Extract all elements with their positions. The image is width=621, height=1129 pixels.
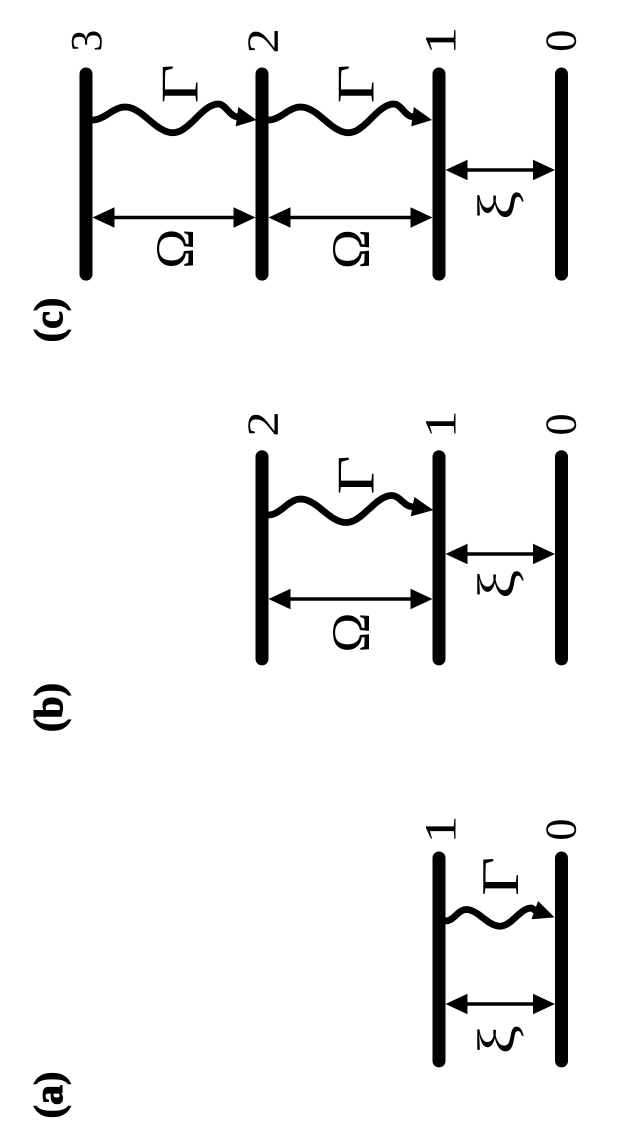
svg-text:Ω: Ω: [145, 229, 205, 269]
svg-text:Ω: Ω: [321, 612, 381, 652]
svg-text:1: 1: [416, 815, 465, 843]
decay arrow Gamma 2-1 (panel c): [269, 104, 433, 133]
level 0 (panel b): [555, 457, 568, 659]
svg-text:ξ: ξ: [467, 1025, 526, 1054]
svg-text:2: 2: [240, 411, 288, 436]
Rabi arrow Omega 3-2 (panel c): [93, 207, 256, 227]
coupling arrow xi (panel c): [446, 160, 556, 180]
svg-text:ξ: ξ: [467, 570, 526, 599]
svg-text:(b): (b): [26, 683, 71, 732]
decay arrow Gamma 3-2 (panel c): [93, 104, 257, 133]
level 1 (panel a): [433, 858, 446, 1061]
svg-text:ξ: ξ: [467, 191, 526, 220]
coupling arrow xi (panel a): [446, 994, 556, 1014]
level 2 (panel b): [256, 457, 269, 659]
svg-text:0: 0: [537, 30, 586, 52]
decay arrow Gamma 1-0 (panel a): [446, 901, 555, 926]
level 1 (panel b): [433, 457, 446, 659]
svg-text:0: 0: [537, 819, 586, 841]
level 2 (panel c): [256, 74, 269, 274]
level 0 (panel a): [555, 858, 568, 1061]
svg-text:Γ: Γ: [327, 455, 385, 494]
decay arrow Gamma 2-1 (panel b): [269, 496, 434, 523]
svg-text:(a): (a): [26, 1072, 71, 1119]
svg-text:Γ: Γ: [327, 64, 385, 103]
svg-text:Γ: Γ: [472, 857, 530, 896]
level 3 (panel c): [80, 74, 93, 274]
level 1 (panel c): [433, 74, 446, 274]
svg-text:0: 0: [537, 414, 586, 436]
svg-text:(c): (c): [26, 298, 71, 342]
svg-text:Γ: Γ: [151, 64, 209, 103]
Rabi arrow Omega 2-1 (panel c): [269, 207, 433, 227]
svg-text:Ω: Ω: [321, 229, 381, 269]
svg-text:3: 3: [62, 30, 111, 52]
svg-text:1: 1: [416, 27, 465, 55]
svg-text:1: 1: [416, 410, 465, 438]
svg-text:2: 2: [240, 28, 288, 53]
Rabi arrow Omega 2-1 (panel b): [269, 589, 433, 609]
coupling arrow xi (panel b): [446, 544, 556, 564]
level 0 (panel c): [555, 74, 568, 274]
